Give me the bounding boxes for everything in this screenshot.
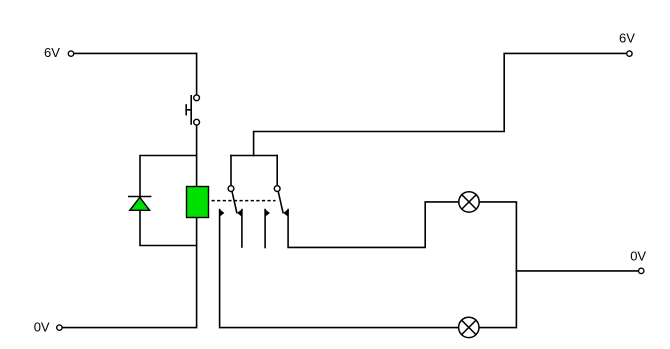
- svg-text:6V: 6V: [619, 31, 635, 46]
- svg-text:0V: 0V: [630, 248, 646, 263]
- svg-text:0V: 0V: [34, 319, 50, 334]
- svg-text:6V: 6V: [44, 45, 60, 60]
